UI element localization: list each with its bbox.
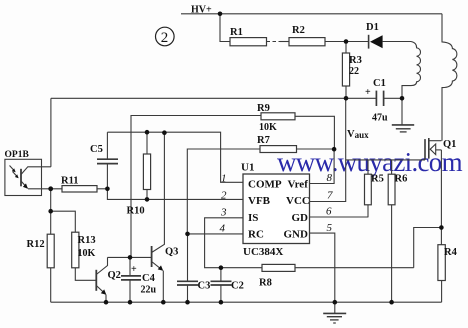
wire pin6 GD to R5 [310,216,369,218]
circled number 2 [156,27,175,46]
capacitor C2 [211,268,232,303]
wire VFB net pin2 [107,189,243,200]
svg-text:10K: 10K [78,248,96,259]
svg-text:D1: D1 [366,22,379,33]
svg-text:R5: R5 [371,174,384,185]
resistor R13 [72,232,97,280]
wire pin3 IS net [205,218,262,268]
svg-text:Q3: Q3 [165,247,178,258]
svg-text:R11: R11 [61,176,79,187]
svg-text:8: 8 [327,172,333,184]
svg-text:R10: R10 [127,206,145,217]
svg-text:2: 2 [221,190,227,202]
wire R1 to R2 (dashed section) [267,41,282,43]
svg-text:VFB: VFB [248,195,271,207]
capacitor C3 [177,234,198,302]
svg-text:C1: C1 [373,78,386,89]
wire HV+ junction drop to R1 [220,14,230,42]
svg-text:7: 7 [327,190,333,202]
transistor Q1 mosfet [425,138,441,245]
svg-text:C4: C4 [142,273,156,284]
svg-text:5: 5 [327,222,333,234]
wire pin4 RC [187,233,243,235]
wire Q2 collector to base node [108,256,131,258]
diode D1 [369,35,411,49]
pin numbers [220,172,334,234]
svg-text:IS: IS [248,212,258,224]
wire Vaux horizontal rail [51,97,346,99]
svg-text:R4: R4 [444,247,458,258]
svg-text:22: 22 [349,66,359,77]
svg-text:3: 3 [220,207,227,219]
resistor R5 [365,160,372,217]
resistor R11 [28,186,107,192]
wire opto emitter node down [50,189,52,211]
svg-text:R13: R13 [78,235,96,246]
svg-text:Vaux: Vaux [347,129,369,140]
resistor R2 [289,38,325,46]
svg-text:R3: R3 [349,55,362,66]
svg-text:RC: RC [248,229,264,241]
svg-text:HV+: HV+ [191,5,212,16]
svg-text:Q2: Q2 [108,270,121,281]
svg-text:GD: GD [292,212,309,224]
resistor R8 [262,264,414,271]
svg-text:C2: C2 [231,281,244,292]
transistor Q2 [96,257,107,302]
wire top HV+ rail [181,13,442,15]
svg-text:Q1: Q1 [443,139,456,150]
svg-text:+: + [365,87,371,98]
wire sense link to Q1 source [414,228,442,268]
svg-text:47u: 47u [372,113,388,124]
svg-text:22u: 22u [141,285,157,296]
resistor R4 [438,245,445,303]
svg-text:R12: R12 [27,239,45,250]
svg-text:6: 6 [326,206,332,218]
wire pin5 GND to ground [310,233,335,302]
wire R2 to node [325,41,369,43]
svg-text:Vref: Vref [288,179,309,191]
ground symbol bottom [323,302,346,323]
wire R1-R2 solid part [280,41,289,43]
svg-text:+: + [131,264,137,275]
svg-text:R9: R9 [257,103,270,114]
svg-text:R7: R7 [257,135,270,146]
wire gate rail [346,159,425,161]
svg-text:R6: R6 [395,174,408,185]
wire node to R13 [51,211,76,232]
wire Vaux vertical to VCC pin7 [310,98,346,201]
svg-text:VCC: VCC [286,195,310,207]
resistor R10 [143,132,150,199]
IC U1 pin and name labels [241,162,310,259]
capacitor C5 [97,132,118,189]
svg-text:GND: GND [284,229,309,241]
wire pin8 Vref to R7/R9 [310,149,335,183]
svg-text:COMP: COMP [248,179,282,191]
svg-text:UC384X: UC384X [243,246,283,258]
svg-text:R1: R1 [230,27,243,38]
svg-text:R2: R2 [292,25,305,36]
svg-text:4: 4 [220,222,226,234]
capacitor C1 [346,91,402,106]
transformer primary winding [442,14,457,141]
svg-text:C5: C5 [90,144,103,155]
resistor R12 [47,211,54,302]
svg-text:2: 2 [161,30,169,46]
transformer aux winding [402,42,421,99]
optocoupler OP1B [5,98,51,195]
IC U1 UC384X box [243,174,310,244]
resistor R3 [342,42,349,99]
svg-text:U1: U1 [241,162,254,174]
svg-text:R8: R8 [259,278,272,289]
svg-text:10K: 10K [259,122,277,133]
resistor R9 [131,113,334,258]
svg-text:C3: C3 [198,281,211,292]
watermark www.wuyazi.com [277,147,463,177]
svg-text:OP1B: OP1B [5,150,30,160]
svg-text:1: 1 [221,173,227,185]
transistor Q3 [130,133,164,303]
resistor R6 [388,160,395,302]
wire COMP net to pin1 [107,132,243,182]
wire bottom ground rail [51,301,442,303]
resistor R1 [230,38,267,46]
ground under aux winding [392,98,414,132]
capacitor C4 [121,257,141,302]
resistor R7 [187,146,334,234]
